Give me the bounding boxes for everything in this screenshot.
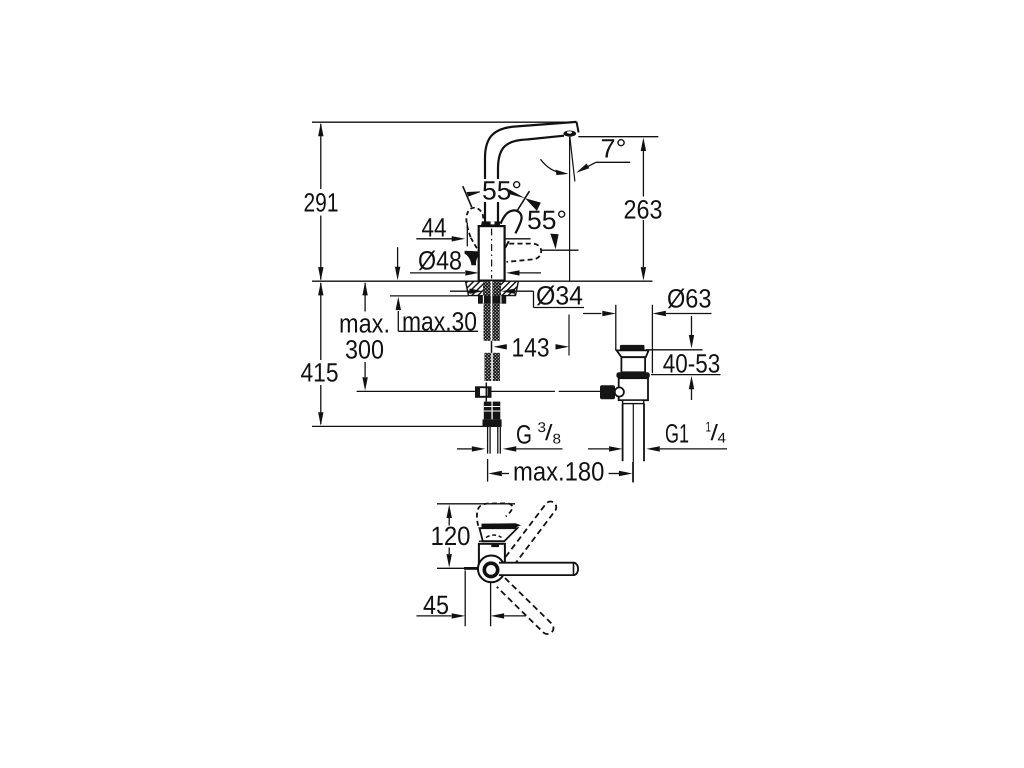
dim: max.180 extension lines [488, 459, 633, 482]
7 degree leader line and arrowhead [582, 162, 596, 170]
svg-text:55°: 55° [527, 205, 567, 235]
max.30 lower reference line (flange underside) [390, 295, 468, 297]
pull rod cross fitting [475, 386, 492, 398]
svg-text:Ø63: Ø63 [667, 284, 712, 314]
handle base plate [482, 221, 500, 226]
drain O-ring [616, 372, 649, 378]
dim: 143 dimension [493, 344, 507, 349]
drain centerline [632, 404, 634, 483]
svg-text:G1: G1 [665, 419, 689, 449]
dim: 45 dimension [416, 615, 451, 617]
mounting flange hatched (escutcheon) [466, 281, 519, 295]
drain plug cap [620, 345, 645, 351]
dim: 120 vertical dimension [448, 518, 450, 554]
dim: 263 top reference line [578, 136, 658, 138]
dim: Ø63 extension lines [616, 305, 653, 374]
svg-text:Ø34: Ø34 [536, 281, 583, 311]
faucet body housing [479, 226, 505, 281]
dim: Ø63 dimension arrows [583, 313, 602, 315]
small handle mark near capsule [505, 241, 509, 248]
svg-text:44: 44 [422, 213, 447, 243]
top view: 120 upper reference line [437, 503, 515, 505]
connector flange nut [483, 419, 502, 427]
dim: Ø34 dimension (leader to label) [450, 290, 470, 292]
svg-text:263: 263 [624, 195, 663, 225]
pull rod inside shank gap [491, 341, 493, 353]
drain flange [617, 350, 649, 357]
top view: spout bearing inner ring [484, 563, 497, 576]
spout riser and curve inner line [498, 136, 564, 222]
aerator outlet ring [564, 131, 577, 137]
dim: 45 extension lines [465, 571, 490, 627]
dim: max.30 lower arrow and underline [398, 311, 478, 331]
drain tail joint band [623, 400, 644, 403]
dashed handle knob rotated left [466, 208, 483, 237]
dashed knob hidden edge [471, 238, 478, 250]
dim: max.30 upper arrow (above deck) [397, 247, 399, 267]
dim: 40-53 lower arrow [651, 374, 721, 376]
svg-text:45: 45 [423, 590, 449, 620]
svg-text:143: 143 [512, 333, 550, 363]
top view: cone hidden dashed arc [486, 535, 502, 538]
drain tailpiece [623, 404, 644, 462]
spout riser and curve outer line [485, 122, 577, 222]
spout tip end face [577, 122, 579, 133]
dim: 291 vertical dimension line [320, 124, 322, 280]
drain neck [621, 357, 645, 372]
dashed lever capsule horizontal [507, 244, 542, 262]
55deg second: arrow onto horizontal lever line [542, 249, 579, 251]
top view: dashed handle knob position [477, 503, 512, 525]
dim: max.180 arrows [488, 471, 502, 476]
solid handle knob rotated right [501, 210, 522, 233]
top view: handle cone [480, 528, 518, 541]
svg-text:55°: 55° [482, 176, 522, 206]
top view: body tick mark [491, 545, 499, 548]
dim: 415 vertical dimension line [320, 283, 322, 424]
dim: top reference line (spout height) [312, 121, 576, 123]
top view: spout tube [499, 563, 578, 575]
55deg first: arrowhead [467, 191, 483, 196]
drain rod lever block [600, 385, 615, 399]
top view: 120 lower reference line [437, 567, 484, 569]
body centerline [491, 229, 493, 279]
svg-text:7°: 7° [601, 134, 627, 164]
top view: dashed lever rotated up-right [506, 502, 557, 563]
svg-text:max.30: max.30 [402, 307, 477, 337]
svg-text:120: 120 [431, 521, 471, 551]
55deg second: bowtie double arrowhead [509, 189, 525, 198]
7 degree slant line [570, 137, 575, 182]
svg-text:415: 415 [301, 358, 339, 388]
flexible hoses [488, 427, 501, 454]
55deg first: rotated axis thin line [463, 186, 472, 207]
dim: G3/8 dimension arrows [457, 448, 472, 450]
svg-text:Ø48: Ø48 [418, 246, 462, 276]
dim: max.300 vertical dimension line [364, 283, 366, 377]
top view: lever bar (dark) [482, 523, 522, 527]
55deg second: rotated axis thin line [517, 191, 529, 210]
top view: spout bearing outer circle [478, 556, 505, 583]
hose connectors G3/8 [484, 402, 492, 420]
svg-text:291: 291 [304, 188, 339, 218]
top view: dashed lever rotated down-right [497, 578, 554, 634]
svg-text:G: G [516, 420, 532, 450]
dim: Ø48 dimension [410, 272, 465, 274]
label 55deg first (with white backing) [480, 179, 524, 202]
reference line at pull-rod level [357, 390, 601, 392]
svg-text:8: 8 [553, 431, 562, 447]
top view: left reference tick [464, 567, 479, 570]
svg-text:max.180: max.180 [513, 457, 604, 487]
drain valve body [619, 378, 648, 400]
spout axis extension for 143 [568, 315, 570, 356]
top view: body step [479, 541, 505, 544]
threaded shank upper segment [484, 304, 500, 341]
threaded shank through flange [483, 281, 501, 295]
threaded shank lower segment [485, 353, 501, 381]
top view: body square [479, 544, 505, 568]
spout axis vertical reference line [569, 137, 571, 281]
7 degree swivel arc with arrowhead [541, 159, 565, 173]
svg-text:300: 300 [345, 335, 384, 365]
solid lever handle in down position [465, 251, 480, 265]
deck reference line [312, 280, 653, 282]
svg-text:4: 4 [718, 430, 727, 446]
drain ball joint [615, 387, 624, 396]
dim: 40-53 upper arrow [691, 316, 693, 335]
reference line at hose connector bottom [312, 425, 483, 427]
mounting nut [478, 296, 506, 304]
dim: 263 vertical dimension line [642, 151, 644, 267]
svg-text:40-53: 40-53 [663, 349, 721, 379]
dim: 44 dimension [416, 238, 452, 240]
dim: G1 1/4 arrows [588, 448, 609, 450]
